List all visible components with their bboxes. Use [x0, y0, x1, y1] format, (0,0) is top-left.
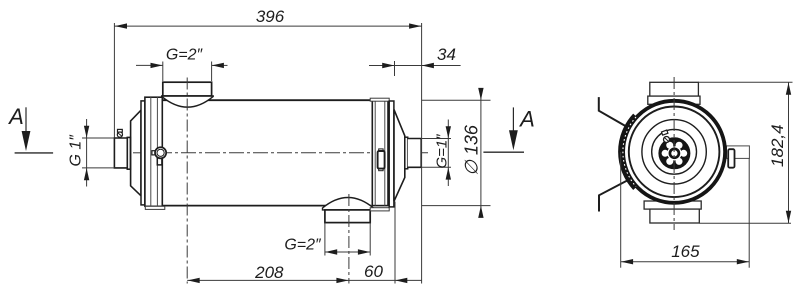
end view inner shell circle — [642, 120, 706, 184]
dimension 208 — [187, 278, 421, 283]
svg-text:G=2″: G=2″ — [284, 237, 322, 254]
dimension 182,4 — [698, 82, 792, 223]
right flange ring — [389, 101, 394, 207]
end view hub star plug — [658, 137, 690, 169]
svg-text:A: A — [518, 107, 535, 132]
dimension 60 — [395, 278, 407, 283]
wire: extension line at cone start (60 dim) — [394, 202, 396, 284]
svg-text:G 1″: G 1″ — [68, 134, 85, 167]
left end cap cone — [131, 110, 141, 196]
svg-text:G=1″: G=1″ — [434, 134, 451, 169]
svg-text:60: 60 — [364, 262, 383, 281]
end view drain valve on hub — [661, 130, 669, 142]
clamp latch on right band — [378, 149, 385, 171]
bottom port G=2" tube — [325, 210, 370, 223]
end view top port flange — [648, 96, 700, 104]
end view bottom port flange — [644, 201, 701, 209]
end view clamp latch (right) — [728, 149, 734, 168]
end view hub recess circle — [652, 129, 697, 174]
end view lifting bracket (upper left) — [599, 97, 629, 128]
wire: top port centerline — [186, 78, 188, 284]
wire: centerline inside left cone — [133, 152, 146, 154]
dimension 396 — [114, 23, 421, 138]
dimension 165 — [621, 152, 750, 268]
svg-text:∅ 136: ∅ 136 — [462, 124, 482, 176]
wire: end view vertical centerline — [673, 77, 675, 230]
shell of vessel (side view) — [162, 100, 371, 205]
wire: main horizontal centerline of vessel — [133, 152, 428, 154]
drain cock on left band — [152, 147, 166, 165]
svg-text:182,4: 182,4 — [768, 124, 787, 167]
right stub collar — [405, 137, 408, 169]
wire: right extension line (396/34/60 dims) — [421, 23, 423, 284]
end view bottom port tube — [650, 209, 699, 223]
left flange ring — [141, 101, 145, 205]
end view lifting bracket (lower left) — [599, 180, 628, 211]
left clamp band — [145, 97, 165, 209]
dimension G=2" (bottom port) — [325, 223, 370, 256]
top port G=2" tube — [163, 82, 212, 96]
section marker A (right) — [483, 107, 534, 153]
dimension G 1" (left stub) — [82, 119, 114, 187]
svg-text:165: 165 — [671, 242, 700, 261]
dimension diameter 136 — [422, 88, 491, 218]
dimension G=2" (top port) — [136, 62, 228, 82]
right clamp band — [370, 98, 389, 211]
svg-text:34: 34 — [437, 45, 456, 64]
svg-text:208: 208 — [254, 263, 284, 282]
end view thick gasket arc (left side) — [621, 115, 636, 188]
svg-text:G=2″: G=2″ — [166, 47, 204, 64]
top port G=2" saddle flange — [162, 96, 214, 107]
svg-text:396: 396 — [256, 7, 285, 26]
right end cap cone — [394, 110, 405, 202]
section marker A (left) — [7, 104, 53, 153]
dimension 34 — [369, 61, 461, 76]
svg-text:A: A — [7, 104, 24, 129]
wire: bottom port centerline — [348, 194, 350, 284]
right G=1" pipe stub — [408, 139, 422, 168]
end view flange circle — [629, 107, 720, 198]
end view mounting tab (right) — [727, 146, 750, 159]
end view outer shell circle — [623, 101, 725, 203]
dimension G=1" (right stub) — [421, 120, 451, 187]
small vent valve on left stub — [117, 129, 122, 137]
left G1" pipe stub — [114, 137, 130, 169]
end view top port tube — [650, 82, 699, 96]
bottom port G=2" saddle flange — [323, 198, 374, 210]
